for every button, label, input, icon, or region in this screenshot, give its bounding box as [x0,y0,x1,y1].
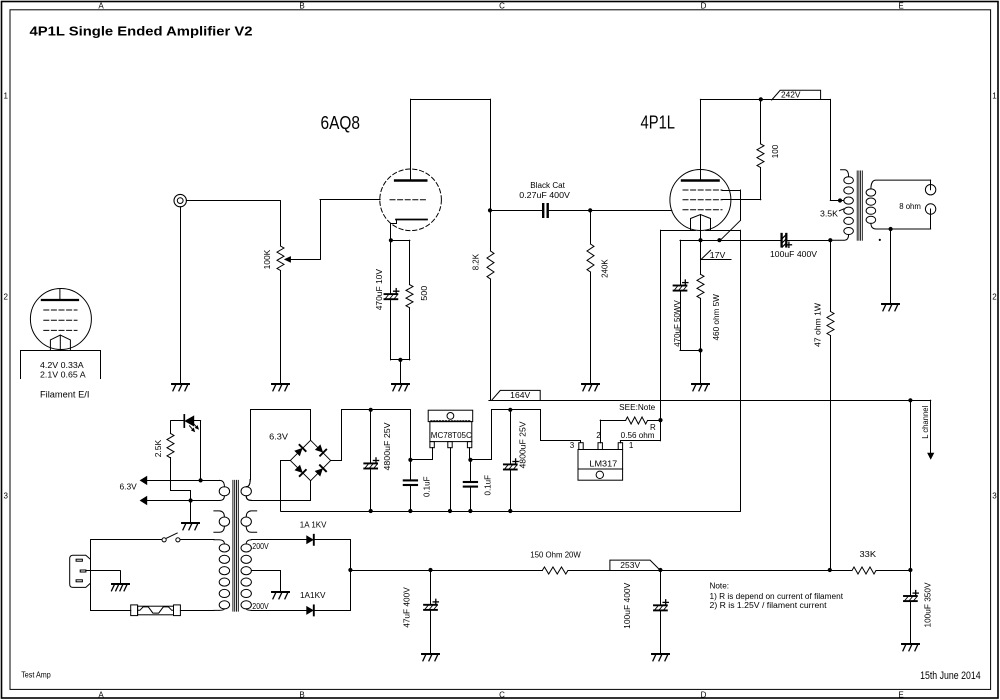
wire jack to pot top [186,201,280,247]
label 1A 1KV [300,521,327,530]
svg-text:Black Cat: Black Cat [530,181,565,190]
wire fuse to PT [180,610,214,612]
label 8 ohm [899,202,921,211]
node 4800uF2 top [508,408,512,412]
wire bridge DC plus [331,410,342,461]
svg-text:C: C [499,1,505,10]
resistor 47 ohm 1W [827,312,834,336]
svg-text:33K: 33K [860,550,877,559]
grid column letters top [98,1,903,10]
svg-text:A: A [98,691,104,700]
label 200V top [252,542,269,551]
wire 470uF bottom [390,300,392,360]
wire to ground 4P1L cathode [700,350,702,382]
svg-text:1: 1 [629,441,634,450]
svg-text:4800uF 25V: 4800uF 25V [519,421,528,469]
ground 47uF [422,654,439,661]
wire rail A [342,409,411,411]
ground 240K [582,384,599,391]
tube V1 6AQ8 envelope [380,169,442,231]
wire 242V to OPT tap [830,99,844,200]
svg-text:1: 1 [992,92,997,101]
4P1L filament bars [661,230,741,232]
wire filament right leg [740,230,742,511]
label 100uF 400V psu [623,582,632,629]
svg-text:100uF 400V: 100uF 400V [623,582,632,629]
stray dot [879,239,881,241]
wire 6.3V line2 [140,496,220,505]
svg-text:L channel: L channel [921,406,930,439]
svg-text:0.1uF: 0.1uF [423,476,432,497]
node return 0.1uF2 [468,509,472,513]
label 100 [771,144,780,158]
label 240K [601,259,610,278]
wire cathode to ground [400,360,402,383]
svg-text:100K: 100K [263,249,272,269]
transformer OPT primary winding [831,170,854,241]
wire LM317 pin1 to node [620,420,660,443]
tag 17V [701,250,731,260]
wire MC pin2 gnd [450,448,452,511]
node 4800uF1 top [369,408,373,412]
ground 4P1L cathode [692,384,709,391]
resistor 100 [757,144,764,168]
wire 460 ohm bottom [700,298,702,350]
wire node to 4P1L grid [590,210,672,212]
ground pot [272,384,289,391]
svg-text:0.56 ohm: 0.56 ohm [621,431,655,440]
jack output gnd [925,204,935,229]
label 100K [263,249,272,269]
svg-text:3: 3 [570,441,575,450]
sheet name text [21,670,51,679]
transformer PT primary winding [214,540,230,611]
node gnd line2 [189,498,193,502]
tag 253V [610,560,660,570]
node 47uF [428,568,432,572]
svg-text:4P1L: 4P1L [641,113,676,133]
node 253V cap [658,568,662,572]
wire secondary to ground [890,229,892,303]
wire plate top run [411,99,490,101]
wire node to coupling cap [490,210,542,212]
node R junction [658,418,662,422]
wire MC pin1 input [411,448,433,460]
4P1L plate [682,99,719,180]
node return 0.1uF1 [408,509,412,513]
node 47ohm rail [828,568,832,572]
ground 100uF 350V [902,644,919,651]
svg-text:4.2V 0.33A: 4.2V 0.33A [40,361,84,370]
label 470uF 10V [375,268,384,310]
svg-text:0.27uF 400V: 0.27uF 400V [519,191,570,200]
potentiometer 100K [277,246,284,271]
node 242V [759,97,763,101]
wire pot bottom to ground [280,271,282,383]
svg-text:164V: 164V [510,391,531,400]
wire 470uF 50WV bottom [680,291,701,350]
wire 242V rail [700,99,830,101]
svg-text:0.1uF: 0.1uF [483,475,492,496]
grid row numbers right [992,92,997,501]
tag 164V [492,390,541,400]
label 6AQ8 [321,113,361,133]
label SEE:Note [619,403,656,412]
capacitor 4800uF 25V second [504,410,518,511]
wire cathode bottom join [391,359,410,361]
label 4800uF 25V first [383,422,392,471]
ground cathode network [392,384,409,391]
svg-text:2) R is 1.25V / filament curre: 2) R is 1.25V / filament current [710,601,828,610]
svg-text:E: E [898,1,903,10]
transformer PT right 6.3V loop [241,480,251,501]
wire R to LM317 pin2 [600,420,625,443]
node rectifier join [348,568,352,572]
svg-text:17V: 17V [710,251,726,260]
node cathode junction top [389,238,393,242]
input jack J1 [174,194,186,206]
wire 200V top to diode [251,539,306,541]
svg-text:Test Amp: Test Amp [21,670,51,679]
node MC output [468,458,472,462]
label 2.1V 0.65 A [40,371,86,380]
capacitor 470uF 10V [385,289,399,300]
wire bridge DC minus [281,461,291,511]
node OPT tap [838,198,842,202]
tag 242V [772,90,821,100]
label 0.56 ohm [621,431,655,440]
svg-text:1: 1 [3,92,8,101]
tube V2 4P1L envelope [670,170,731,231]
label 100uF 350V [924,582,933,628]
jack output hot [925,180,935,195]
svg-text:3.5K: 3.5K [820,210,839,219]
wire 33K to 164V node [876,570,910,572]
resistor 2.5K [167,433,174,458]
label 0.27uF 400V [519,191,570,200]
capacitor 100uF 400V ultrapath [782,234,792,247]
svg-text:100uF 350V: 100uF 350V [924,582,933,628]
svg-text:460 ohm 5W: 460 ohm 5W [712,294,721,341]
svg-text:150 Ohm 20W: 150 Ohm 20W [530,551,581,560]
node LED line1 [199,478,203,482]
6AQ8 plate [395,99,426,181]
label 4800uF 25V second [519,421,528,469]
svg-text:8 ohm: 8 ohm [899,202,921,211]
label 47uF 400V [402,587,411,628]
wire IEC to switch [91,539,162,541]
svg-text:470uF 10V: 470uF 10V [375,268,384,310]
capacitor 470uF 50WV wire top [680,240,682,284]
wire diode top to join [314,540,351,571]
label Black Cat [530,181,565,190]
date text [920,670,981,682]
label 4.2V 0.33A [40,361,84,370]
svg-text:240K: 240K [601,259,610,278]
4P1L filament center line [700,215,702,240]
svg-text:242V: 242V [781,91,801,100]
ground jack [172,384,189,391]
transformer PT secondary 200V winding [241,540,251,611]
wire 164V rail [489,400,911,402]
capacitor 0.1uF second [464,460,477,511]
label MC78T05C [431,431,472,440]
ground center tap [272,592,289,599]
legend box [21,351,101,379]
wire feed to LM317 pin3 [541,410,581,443]
IC MC78T05C body [428,410,473,448]
wire 240K bottom [590,272,592,383]
wire filament left leg [660,230,662,420]
resistor 460 ohm 5W [697,274,704,298]
wire ultrapath to OPT bottom [787,240,830,242]
wire LED to line1 [194,421,200,481]
svg-text:47 ohm 1W: 47 ohm 1W [814,303,823,347]
resistor 500 [406,285,413,308]
4P1L grid g3 dashed [683,189,722,191]
svg-text:LM317: LM317 [589,460,617,469]
capacitor 100uF 350V [904,570,918,643]
label 0.1uF first [423,476,432,497]
svg-text:E: E [898,691,903,700]
capacitor 47uF 400V [424,570,438,653]
resistor 47 ohm 1W wire top [830,240,832,311]
wire 8.2K string top [490,99,492,251]
6AQ8 cathode [391,220,428,241]
svg-text:15th June 2014: 15th June 2014 [920,670,981,682]
label 460 ohm 5W [712,294,721,341]
node plate-cap junction [488,208,492,212]
svg-text:6AQ8: 6AQ8 [321,113,361,133]
capacitor 0.1uF first [404,410,417,511]
svg-text:C: C [499,691,505,700]
resistor 8.2K [487,251,494,279]
diode D3 1A1KV bottom [306,605,314,615]
ground pilot [182,523,199,530]
label pin 2 [596,431,601,440]
wire 8.2K bottom to 164V rail [490,279,492,400]
node g3 join [717,238,721,242]
label 150 Ohm 20W [530,551,581,560]
resistor 33K [852,567,876,574]
svg-text:B: B [299,691,304,700]
node 164V filter [908,568,912,572]
label 8.2K [472,253,481,270]
ground IEC earth [112,584,130,591]
wire bridge top feed [246,410,310,487]
label pin 3 [570,441,575,450]
wire L channel arrow [910,400,934,460]
svg-text:3: 3 [3,492,8,501]
label 200V bottom [252,602,269,611]
label 6.3V bridge [269,433,289,442]
transformer OPT core [857,171,862,240]
fuse F1 [131,605,181,616]
wire 100 ohm top [760,99,762,143]
wire IEC to fuse [91,610,131,612]
wire rail B [492,409,540,411]
label 500 [420,285,429,301]
wire jack sleeve down [180,207,182,383]
svg-text:2: 2 [3,293,8,302]
wire center tap [251,571,280,592]
capacitor 470uF 10V wire top [390,240,392,293]
node filament center [698,238,702,242]
capacitor 470uF 50WV [674,280,688,291]
4P1L filament [691,215,711,231]
svg-text:2.1V 0.65 A: 2.1V 0.65 A [40,371,86,380]
label 33K [860,550,877,559]
svg-text:D: D [701,691,707,700]
svg-text:2: 2 [596,431,601,440]
wire R to node [648,420,661,422]
resistor 240K wire top [590,210,592,244]
svg-text:A: A [98,1,104,10]
ground 100uF 400V [652,654,669,661]
label 47 ohm 1W [814,303,823,347]
node return 4800uF2 [508,509,512,513]
label R [650,423,656,432]
svg-text:500: 500 [420,285,429,301]
svg-text:1A 1KV: 1A 1KV [300,521,327,530]
grid row numbers left [3,92,8,501]
wire 500 bottom [409,308,411,360]
node return 4800uF1 [369,509,373,513]
transformer PT left spare loop [214,511,230,532]
4P1L grid g2 dashed [683,199,722,201]
svg-text:Filament E/I: Filament E/I [40,390,89,400]
pot wiper arrow [284,256,320,263]
resistor 150 Ohm 20W [542,567,568,574]
label L channel [921,406,930,439]
wire coupling cap to 240K node [549,210,590,212]
node 164V to L channel [908,398,912,402]
svg-text:D: D [701,1,707,10]
node grid 4P1L [588,208,592,212]
wire return rail [281,511,741,513]
svg-text:200V: 200V [252,602,269,611]
wire earth pin [86,571,121,583]
node cathode bottom [398,358,402,362]
capacitor 4800uF 25V first [364,410,378,511]
wire MC pin3 output [469,448,471,460]
svg-text:SEE:Note: SEE:Note [619,403,656,412]
wire g2 to 100 ohm [722,168,761,200]
wire 164V down to B+ rail [910,400,912,570]
svg-text:4P1L Single Ended Amplifier V: 4P1L Single Ended Amplifier V2 [30,24,253,39]
label Filament E/I [40,390,89,400]
svg-text:47uF 400V: 47uF 400V [402,587,411,628]
wire line2 ground stem [190,501,192,522]
6AQ8 grid dashed [390,199,427,201]
label pin 1 [629,441,634,450]
svg-text:253V: 253V [620,561,640,570]
svg-text:200V: 200V [252,542,269,551]
wire bridge bottom feed [246,481,310,501]
wire 6.3V line1 [140,476,220,485]
wire filament node line [680,240,781,242]
transformer PT core [233,480,238,611]
svg-text:B: B [299,1,304,10]
label LM317 [589,460,617,469]
switch S1 [162,533,180,542]
svg-text:1) R is depend on current of f: 1) R is depend on current of filament [710,592,844,601]
capacitor C coupling Black Cat 0.27uF 400V [543,204,548,217]
label 3.5K [820,209,844,219]
legend tube symbol [30,289,91,351]
wire 200V bottom to diode [251,610,306,612]
svg-text:1A1KV: 1A1KV [300,591,326,600]
node secondary ground [889,227,893,231]
label 6.3V arrows [120,482,138,491]
bridge rectifier diamond [290,440,330,480]
wire B+ rail left [350,570,542,572]
transformer PT left 6.3V loop [219,480,229,500]
svg-text:3: 3 [992,492,997,501]
wire wiper to grid [320,200,380,260]
resistor R 0.56 ohm [626,417,648,424]
node MC input [408,458,412,462]
grid column letters bottom [98,691,903,700]
label 4P1L [641,113,676,133]
svg-text:2: 2 [992,293,997,302]
transformer PT right spare loop [241,511,257,532]
node OPT primary bottom [828,238,832,242]
svg-text:2.5K: 2.5K [154,439,163,457]
wire 47 ohm to B+ rail [830,336,832,571]
ground OPT secondary [882,304,899,311]
wire filament to 460 ohm [700,240,702,274]
svg-text:4800uF 25V: 4800uF 25V [383,422,392,471]
IC LM317 body [578,443,623,481]
node return MC gnd [448,509,452,513]
node cathode RC bottom [698,348,702,352]
wire cathode node to resistor branch [391,240,410,284]
capacitor 100uF 400V psu [654,570,668,653]
wire diode bottom to join [314,570,351,611]
label 1A1KV [300,591,326,600]
svg-text:100: 100 [771,144,780,158]
4P1L grid g1 dashed [683,209,722,211]
svg-text:100uF 400V: 100uF 400V [770,250,818,259]
svg-text:6.3V: 6.3V [269,433,289,442]
wire g3 to cathode node [720,190,740,240]
diode D2 1A 1KV top [306,535,314,545]
transformer OPT secondary winding [866,180,930,229]
title text [30,24,253,39]
connector IEC inlet [70,555,91,587]
resistor 240K [587,244,594,272]
label 470uF 50WV [673,300,682,347]
note text [710,581,844,610]
wire 2.5K top to LED [171,421,185,434]
label 100uF 400V ultrapath [770,250,818,259]
LED D1 [184,415,199,432]
wire switch to PT [180,539,214,541]
svg-text:MC78T05C: MC78T05C [431,431,472,440]
wire B+ rail mid [568,570,852,572]
wire MC output up [471,410,492,460]
svg-text:6.3V: 6.3V [120,482,138,491]
label 2.5K [154,439,163,457]
svg-text:Note:: Note: [710,581,730,590]
label 0.1uF second [483,475,492,496]
wire IEC vertical [90,540,92,611]
wire 2.5K bottom jog [171,458,191,501]
svg-text:8.2K: 8.2K [472,253,481,270]
